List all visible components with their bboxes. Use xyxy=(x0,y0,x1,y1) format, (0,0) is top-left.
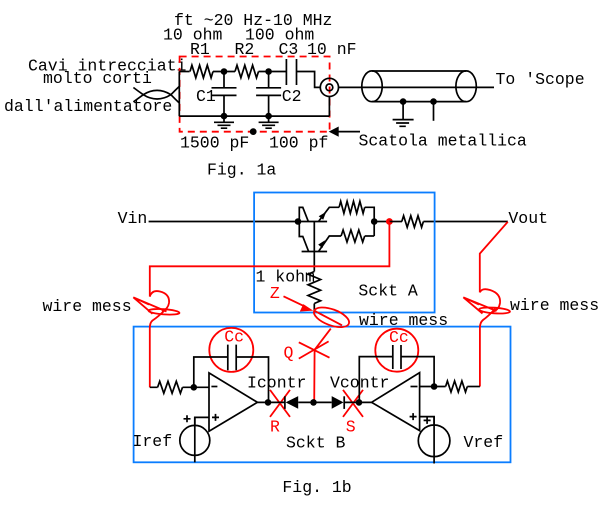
transistor Q-upper-right emitter with arrow xyxy=(319,207,340,221)
wire mess ellipse at Z xyxy=(311,303,351,331)
U2 minus sign xyxy=(411,386,418,388)
wire: U2 inverting input xyxy=(420,386,446,388)
svg-text:S: S xyxy=(346,417,356,436)
twisted pair from power supply xyxy=(133,86,179,94)
svg-text:Fig. 1b: Fig. 1b xyxy=(282,478,351,497)
svg-text:molto corti: molto corti xyxy=(43,69,152,88)
resistor bottom feedback xyxy=(341,230,365,242)
ground under C1 xyxy=(214,116,234,128)
node: output node dot xyxy=(371,218,378,225)
coax cable body top xyxy=(372,70,466,72)
node: top of C1 xyxy=(221,68,228,75)
wire: U2 + input xyxy=(420,417,435,425)
resistor R2 xyxy=(235,65,259,78)
capacitor C1 xyxy=(212,72,237,117)
wire: node to red node xyxy=(374,221,389,223)
op-amp U2 triangle xyxy=(372,373,420,431)
wire: Vin input wire / upper base bar xyxy=(149,221,328,223)
wire: top rail segment xyxy=(179,71,189,73)
svg-text:Vout: Vout xyxy=(508,209,548,228)
svg-text:Q: Q xyxy=(284,344,294,363)
svg-text:1 kohm: 1 kohm xyxy=(256,267,316,286)
wire: top feedback to node xyxy=(365,207,375,236)
capacitor C2 xyxy=(256,72,281,117)
wire (red): right mess down to S input xyxy=(479,328,481,387)
node: red dot on shield bottom xyxy=(250,128,257,135)
wire mess squiggle left xyxy=(150,291,169,311)
diode D2 pointing right xyxy=(332,396,344,409)
wire: R2 to C3 xyxy=(259,71,287,73)
transistor Q-lower-left emitter lead xyxy=(299,222,308,252)
capacitor Cc left xyxy=(228,345,236,371)
node: U1 inverting input dot xyxy=(191,384,198,391)
resistor output series xyxy=(402,216,424,228)
node: U1 output dot xyxy=(265,399,272,406)
wire: coax center conductor xyxy=(339,86,495,88)
node: shield ground tap xyxy=(400,98,407,105)
U1 plus sign xyxy=(212,414,219,421)
resistor 1 kohm xyxy=(308,272,321,304)
svg-text:C2: C2 xyxy=(282,87,302,106)
node: bottom of C1 xyxy=(221,113,228,120)
node: Vin junction dot xyxy=(295,218,302,225)
plus sign at Vref xyxy=(424,417,431,424)
diode D2 cathode bar xyxy=(343,396,345,409)
wire: U2 feedback xyxy=(359,357,434,403)
capacitor Cc right xyxy=(393,345,401,369)
diode D1 pointing left xyxy=(286,396,299,409)
cross R (red) xyxy=(270,390,290,417)
svg-text:Z: Z xyxy=(270,284,280,303)
svg-text:To 'Scope: To 'Scope xyxy=(496,70,585,89)
svg-text:Fig. 1a: Fig. 1a xyxy=(207,161,276,180)
cross Q (red) xyxy=(299,341,330,358)
wire: R1 to R2 xyxy=(213,71,235,73)
shield box: red dashed enclosure xyxy=(180,57,330,132)
node Z: red dot xyxy=(386,218,393,225)
connector: BNC center pin xyxy=(326,84,333,91)
svg-text:Iref: Iref xyxy=(133,432,173,451)
resistor U1 input xyxy=(158,381,183,393)
wire: U1 + input xyxy=(195,417,209,425)
node: bottom of C2 xyxy=(265,113,272,120)
resistor R1 xyxy=(190,65,213,78)
wire (red): Vout to right mess xyxy=(480,222,508,293)
svg-text:Scatola metallica: Scatola metallica xyxy=(359,132,527,151)
wire: bottom rail xyxy=(179,115,329,117)
wire: shield to ground xyxy=(402,102,404,120)
current source Iref xyxy=(180,425,210,455)
coax left end ellipse xyxy=(362,71,382,102)
capacitor C3 xyxy=(286,59,296,85)
transistor Q-upper-left collector stub xyxy=(299,207,308,221)
resistor top feedback xyxy=(339,201,365,213)
box Sckt B xyxy=(134,327,511,463)
voltage source Vref xyxy=(418,425,450,457)
svg-text:Sckt B: Sckt B xyxy=(286,434,346,453)
svg-text:R: R xyxy=(270,417,280,436)
wire: D2 to U2 input xyxy=(344,401,371,403)
wire: bottom feedback to node xyxy=(365,235,375,237)
wire: connector ground to bottom rail xyxy=(328,97,330,117)
wire (red): left mess down to R input xyxy=(149,328,151,388)
wire (red): Z through mess xyxy=(314,311,342,326)
wire: to output resistor xyxy=(389,221,402,223)
coax cable body bottom xyxy=(372,101,466,103)
connector: BNC outer circle xyxy=(320,78,338,96)
wire: lower base bar xyxy=(302,251,328,253)
circle around Cc left (red) xyxy=(209,328,253,372)
wire: shield stub 2 xyxy=(433,102,435,121)
svg-text:1500 pF: 1500 pF xyxy=(180,134,249,153)
U2 plus sign xyxy=(410,413,417,420)
wire: D1 to center node xyxy=(298,401,332,403)
svg-text:Icontr: Icontr xyxy=(247,374,306,393)
plus sign at Iref xyxy=(184,415,191,422)
wire (red): Z node to left mess xyxy=(150,222,390,297)
cross S (red) xyxy=(343,390,363,417)
arrow Z (red) pointing to 1 kohm bottom xyxy=(284,296,306,307)
svg-text:Sckt A: Sckt A xyxy=(358,282,418,301)
wire: U1 output xyxy=(257,401,285,403)
U1 minus sign xyxy=(211,386,217,388)
svg-text:Vref: Vref xyxy=(464,433,504,452)
node: shield tap 2 xyxy=(430,98,437,105)
box Sckt A xyxy=(254,193,435,313)
svg-text:100 pf: 100 pf xyxy=(269,134,328,153)
circle around Cc right (red) xyxy=(375,329,418,372)
svg-text:Vin: Vin xyxy=(118,209,148,228)
coax right end ellipse xyxy=(456,71,476,102)
wire mess squiggle right xyxy=(480,289,500,312)
svg-text:C1: C1 xyxy=(196,87,216,106)
node: U2 input dot xyxy=(356,399,363,406)
wire: U1 feedback xyxy=(194,357,269,402)
ground under C2 xyxy=(259,116,279,128)
svg-text:dall'alimentatore: dall'alimentatore xyxy=(4,97,172,116)
node: control center junction xyxy=(310,399,317,406)
wire: center vertical to 1 kohm xyxy=(313,222,315,272)
wire: filter left edge vertical xyxy=(178,72,180,117)
arrow: points to metal box xyxy=(337,131,360,133)
wire: to Vout xyxy=(423,221,507,223)
resistor U2 input xyxy=(446,381,468,392)
svg-text:wire mess: wire mess xyxy=(510,296,599,315)
op-amp U1 triangle xyxy=(209,373,257,431)
node: top of C2 xyxy=(265,68,272,75)
svg-text:wire mess: wire mess xyxy=(43,297,132,316)
wire: C3 to connector xyxy=(297,72,321,88)
node: U2 inverting dot xyxy=(431,383,438,390)
diode D1 cathode bar xyxy=(284,396,286,409)
ground: coax shield earth xyxy=(393,120,414,127)
transistor Q-lower-right emitter with arrow xyxy=(319,236,342,252)
